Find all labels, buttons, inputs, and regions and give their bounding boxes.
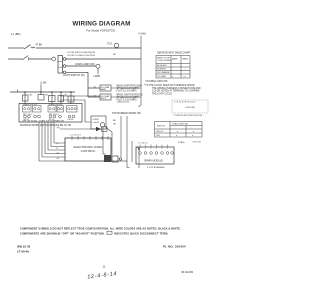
- svg-text:PL NO. 316454: PL NO. 316454: [163, 245, 186, 249]
- svg-text:N: N: [57, 148, 59, 150]
- module terminals: [139, 152, 142, 155]
- svg-text:o: o: [176, 135, 178, 137]
- svg-text:WB.10 02: WB.10 02: [17, 245, 31, 249]
- harness wire 5: [51, 122, 65, 147]
- svg-text:—: —: [184, 69, 186, 71]
- svg-text:MARK: MARK: [183, 58, 189, 61]
- svg-text:For Model FGF337GS: For Model FGF337GS: [86, 29, 115, 33]
- svg-text:N (W): N (W): [139, 31, 146, 35]
- svg-text:L1: L1: [57, 143, 60, 145]
- wire broil igniter row: [88, 96, 100, 98]
- bus branch riser: [40, 85, 42, 96]
- oven light feed riser: [85, 100, 91, 122]
- svg-text:LIGHT SWITCH (W): LIGHT SWITCH (W): [63, 74, 85, 77]
- switch S2 oven door: [22, 56, 28, 60]
- surface bus wire: [10, 91, 75, 93]
- wire TB to N riser: [66, 58, 141, 60]
- wire L1 to N bus: [36, 47, 141, 49]
- svg-text:4 TOP BURNERS: 4 TOP BURNERS: [147, 167, 165, 169]
- light switch table: [155, 122, 203, 138]
- svg-text:THE LOOP CYCLE.: THE LOOP CYCLE.: [152, 93, 173, 95]
- svg-text:OVEN: OVEN: [93, 119, 100, 121]
- svg-text:* NO LGT: * NO LGT: [192, 142, 202, 144]
- contact detail on L1: [31, 47, 35, 48]
- svg-text:DOOR CLOSED POSITION: DOOR CLOSED POSITION: [68, 55, 96, 57]
- svg-text:11: 11: [103, 265, 106, 269]
- wire to lamp: [29, 58, 52, 60]
- svg-text:* OVEN LIGHT SWITCH POS: * OVEN LIGHT SWITCH POS: [173, 115, 203, 117]
- svg-text:OFF: OFF: [156, 135, 161, 137]
- svg-text:THE WIRING HARNESS CONNECTIONS: THE WIRING HARNESS CONNECTIONS AND: [152, 87, 201, 90]
- svg-text:4T BK: 4T BK: [36, 44, 43, 47]
- svg-text:OR ORANGE: OR ORANGE: [157, 71, 170, 74]
- EOC bottom rail: [111, 160, 127, 162]
- doc number left: [17, 245, 31, 254]
- svg-text:1 2 3 4 5 6 7: 1 2 3 4 5 6 7: [70, 135, 82, 137]
- svg-text:SWITCH: SWITCH: [157, 126, 165, 128]
- svg-text:ON LGT: ON LGT: [156, 131, 164, 133]
- relay K1 box: [102, 127, 108, 132]
- svg-text:LT 90-4b: LT 90-4b: [17, 250, 29, 254]
- svg-text:L1 BK: L1 BK: [40, 83, 47, 85]
- svg-text:LIGHT: LIGHT: [93, 122, 100, 124]
- svg-text:45 AF203: 45 AF203: [181, 270, 193, 274]
- svg-text:COMPONENT SYMBOLS DO NOT R: COMPONENT SYMBOLS DO NOT REFLECT TRUE CO…: [20, 226, 181, 230]
- svg-text:OVEN LAMP (OR): OVEN LAMP (OR): [75, 63, 95, 66]
- harness wire 2: [42, 122, 65, 157]
- svg-text:–o: –o: [192, 131, 195, 133]
- junction lamp circle: [52, 57, 56, 61]
- legend footnotes: [144, 81, 201, 95]
- wire L1 top: [8, 47, 24, 49]
- svg-text:TCO: TCO: [107, 43, 112, 46]
- lamp diagonal wire: [106, 128, 112, 156]
- svg-text:OVN LMP: OVN LMP: [185, 107, 195, 109]
- svg-text:GY GRAY: GY GRAY: [157, 75, 167, 78]
- svg-text:SPARK IGN SW: SPARK IGN SW: [23, 103, 37, 106]
- oven lamp down wire: [103, 127, 106, 154]
- oven lamp drop: [96, 64, 100, 68]
- svg-text:BK: BK: [113, 120, 116, 122]
- cell contact dots: [24, 108, 77, 110]
- wire L2 lower: [8, 58, 22, 60]
- svg-text:GY: GY: [57, 158, 61, 160]
- harness wire 1: [39, 122, 65, 161]
- svg-text:W WHITE: W WHITE: [157, 69, 167, 71]
- svg-text:OFF ON PUSH - TURN TOP BURNER: OFF ON PUSH - TURN TOP BURNER SW: [22, 120, 65, 122]
- svg-text:x: x: [172, 76, 173, 78]
- svg-text:CODE LEGEND: CODE LEGEND: [157, 60, 172, 62]
- legend table text: [157, 57, 189, 78]
- surface switch block: [19, 104, 82, 123]
- legend table: [156, 56, 190, 79]
- svg-text:LAMP: LAMP: [94, 75, 101, 78]
- N riser wire: [140, 36, 142, 105]
- svg-text:COLOR NOTED AT TERMINAL TO CON: COLOR NOTED AT TERMINAL TO CONFIRM: [152, 90, 199, 93]
- EOC wire P: [60, 128, 96, 130]
- EOC electronic oven control: [65, 138, 111, 161]
- svg-text:BK: BK: [30, 94, 33, 96]
- svg-text:DEFINITE MFD TABLE CHART: DEFINITE MFD TABLE CHART: [157, 51, 191, 54]
- svg-text:x x: x x: [184, 76, 187, 78]
- switch S1 door latch: [24, 45, 31, 49]
- svg-text:BAKE: BAKE: [101, 88, 107, 91]
- bake igniter box: [100, 85, 111, 91]
- svg-text:DOOR SWITCH SHOWN IN: DOOR SWITCH SHOWN IN: [68, 52, 96, 54]
- wire TB lower: [66, 71, 88, 73]
- svg-text:↓: ↓: [175, 127, 176, 130]
- oven light box: [91, 116, 106, 129]
- TB1 terminal pins: [63, 58, 66, 61]
- svg-text:SURFACE SPARK SWITCH MODULE BR: SURFACE SPARK SWITCH MODULE BR GY OR: [20, 124, 71, 127]
- bus junction dots: [24, 91, 72, 93]
- thermal cutoff TCO: [114, 43, 118, 47]
- svg-text:P (BK): P (BK): [178, 142, 185, 144]
- surface switch drops: [25, 92, 71, 104]
- svg-text:1 2 3 4 5 6: 1 2 3 4 5 6: [138, 143, 148, 145]
- svg-text:↓: ↓: [191, 127, 192, 130]
- svg-text:BROIL (GY): BROIL (GY): [118, 102, 130, 104]
- wire bake igniter row: [88, 87, 100, 89]
- broil igniter box: [100, 94, 111, 100]
- svg-text:COMPONENTS ARE SHOWN IN "O: COMPONENTS ARE SHOWN IN "OFF" OR "NO-HEA…: [20, 231, 105, 235]
- svg-text:CONTROL: CONTROL: [81, 149, 96, 153]
- svg-text:SPARK IGN SW: SPARK IGN SW: [49, 103, 63, 106]
- svg-text:OR BK: OR BK: [68, 119, 74, 121]
- harness wire 6: [54, 122, 65, 143]
- svg-text:–o: –o: [176, 131, 179, 133]
- svg-text:WIRING DIAGRAM: WIRING DIAGRAM: [72, 20, 130, 27]
- connector plug blocks: [104, 155, 111, 162]
- spark module: [136, 147, 174, 164]
- svg-text:L1 (BK): L1 (BK): [11, 32, 21, 36]
- svg-text:INDICATES QUICK DISCONNECT: INDICATES QUICK DISCONNECT TERM.: [114, 231, 168, 235]
- light row wire: [60, 96, 100, 100]
- svg-text:OR: OR: [113, 124, 117, 126]
- inline terminal symbol: [107, 231, 112, 234]
- svg-text:OVEN LIGHT SW: OVEN LIGHT SW: [172, 124, 188, 126]
- svg-text:SPARK MODULE: SPARK MODULE: [144, 160, 163, 163]
- oven light lamp: [100, 123, 104, 127]
- svg-text:1 2 3 4 5 6 7 8 9 10 11 12: 1 2 3 4 5 6 7 8 9 10 11 12: [174, 101, 195, 103]
- spark module feed: [132, 141, 139, 168]
- harness wire 4: [48, 122, 65, 150]
- spark wire B: [127, 116, 130, 168]
- svg-text:BK BLACK: BK BLACK: [157, 64, 167, 67]
- svg-text:BROIL: BROIL: [101, 98, 107, 100]
- igniter feed riser: [87, 72, 89, 97]
- contact circles row: [24, 115, 27, 118]
- svg-text:RR 3 LR 4: RR 3 LR 4: [49, 114, 60, 116]
- spark wire A: [120, 116, 122, 157]
- svg-text:BK: BK: [113, 54, 116, 56]
- svg-text:FLAT 3.2-3.6 AMPS: FLAT 3.2-3.6 AMPS: [117, 89, 138, 92]
- wire TB middle: [66, 65, 96, 67]
- svg-text:ABBR: ABBR: [172, 58, 178, 61]
- svg-text:* DOUBLE CIRCUITS: * DOUBLE CIRCUITS: [145, 81, 168, 83]
- drop contact boxes: [23, 95, 29, 101]
- harness wire 3: [45, 122, 65, 154]
- svg-text:o: o: [192, 135, 194, 137]
- terminal block TB1: [58, 56, 63, 74]
- svg-text:RF 1 LF 2: RF 1 LF 2: [23, 114, 33, 116]
- svg-text:12-4-8-14: 12-4-8-14: [87, 271, 118, 281]
- optional oven lamp dashed box: [172, 100, 208, 113]
- switch cells: [23, 106, 32, 113]
- svg-text:** IF THE CLOCK DOES NOT OPERA: ** IF THE CLOCK DOES NOT OPERATE CHECK: [144, 84, 195, 87]
- svg-text:P5: P5: [57, 127, 60, 129]
- svg-text:TOP BURNER SPARK SW: TOP BURNER SPARK SW: [112, 112, 141, 115]
- EOC top pins: [72, 136, 108, 140]
